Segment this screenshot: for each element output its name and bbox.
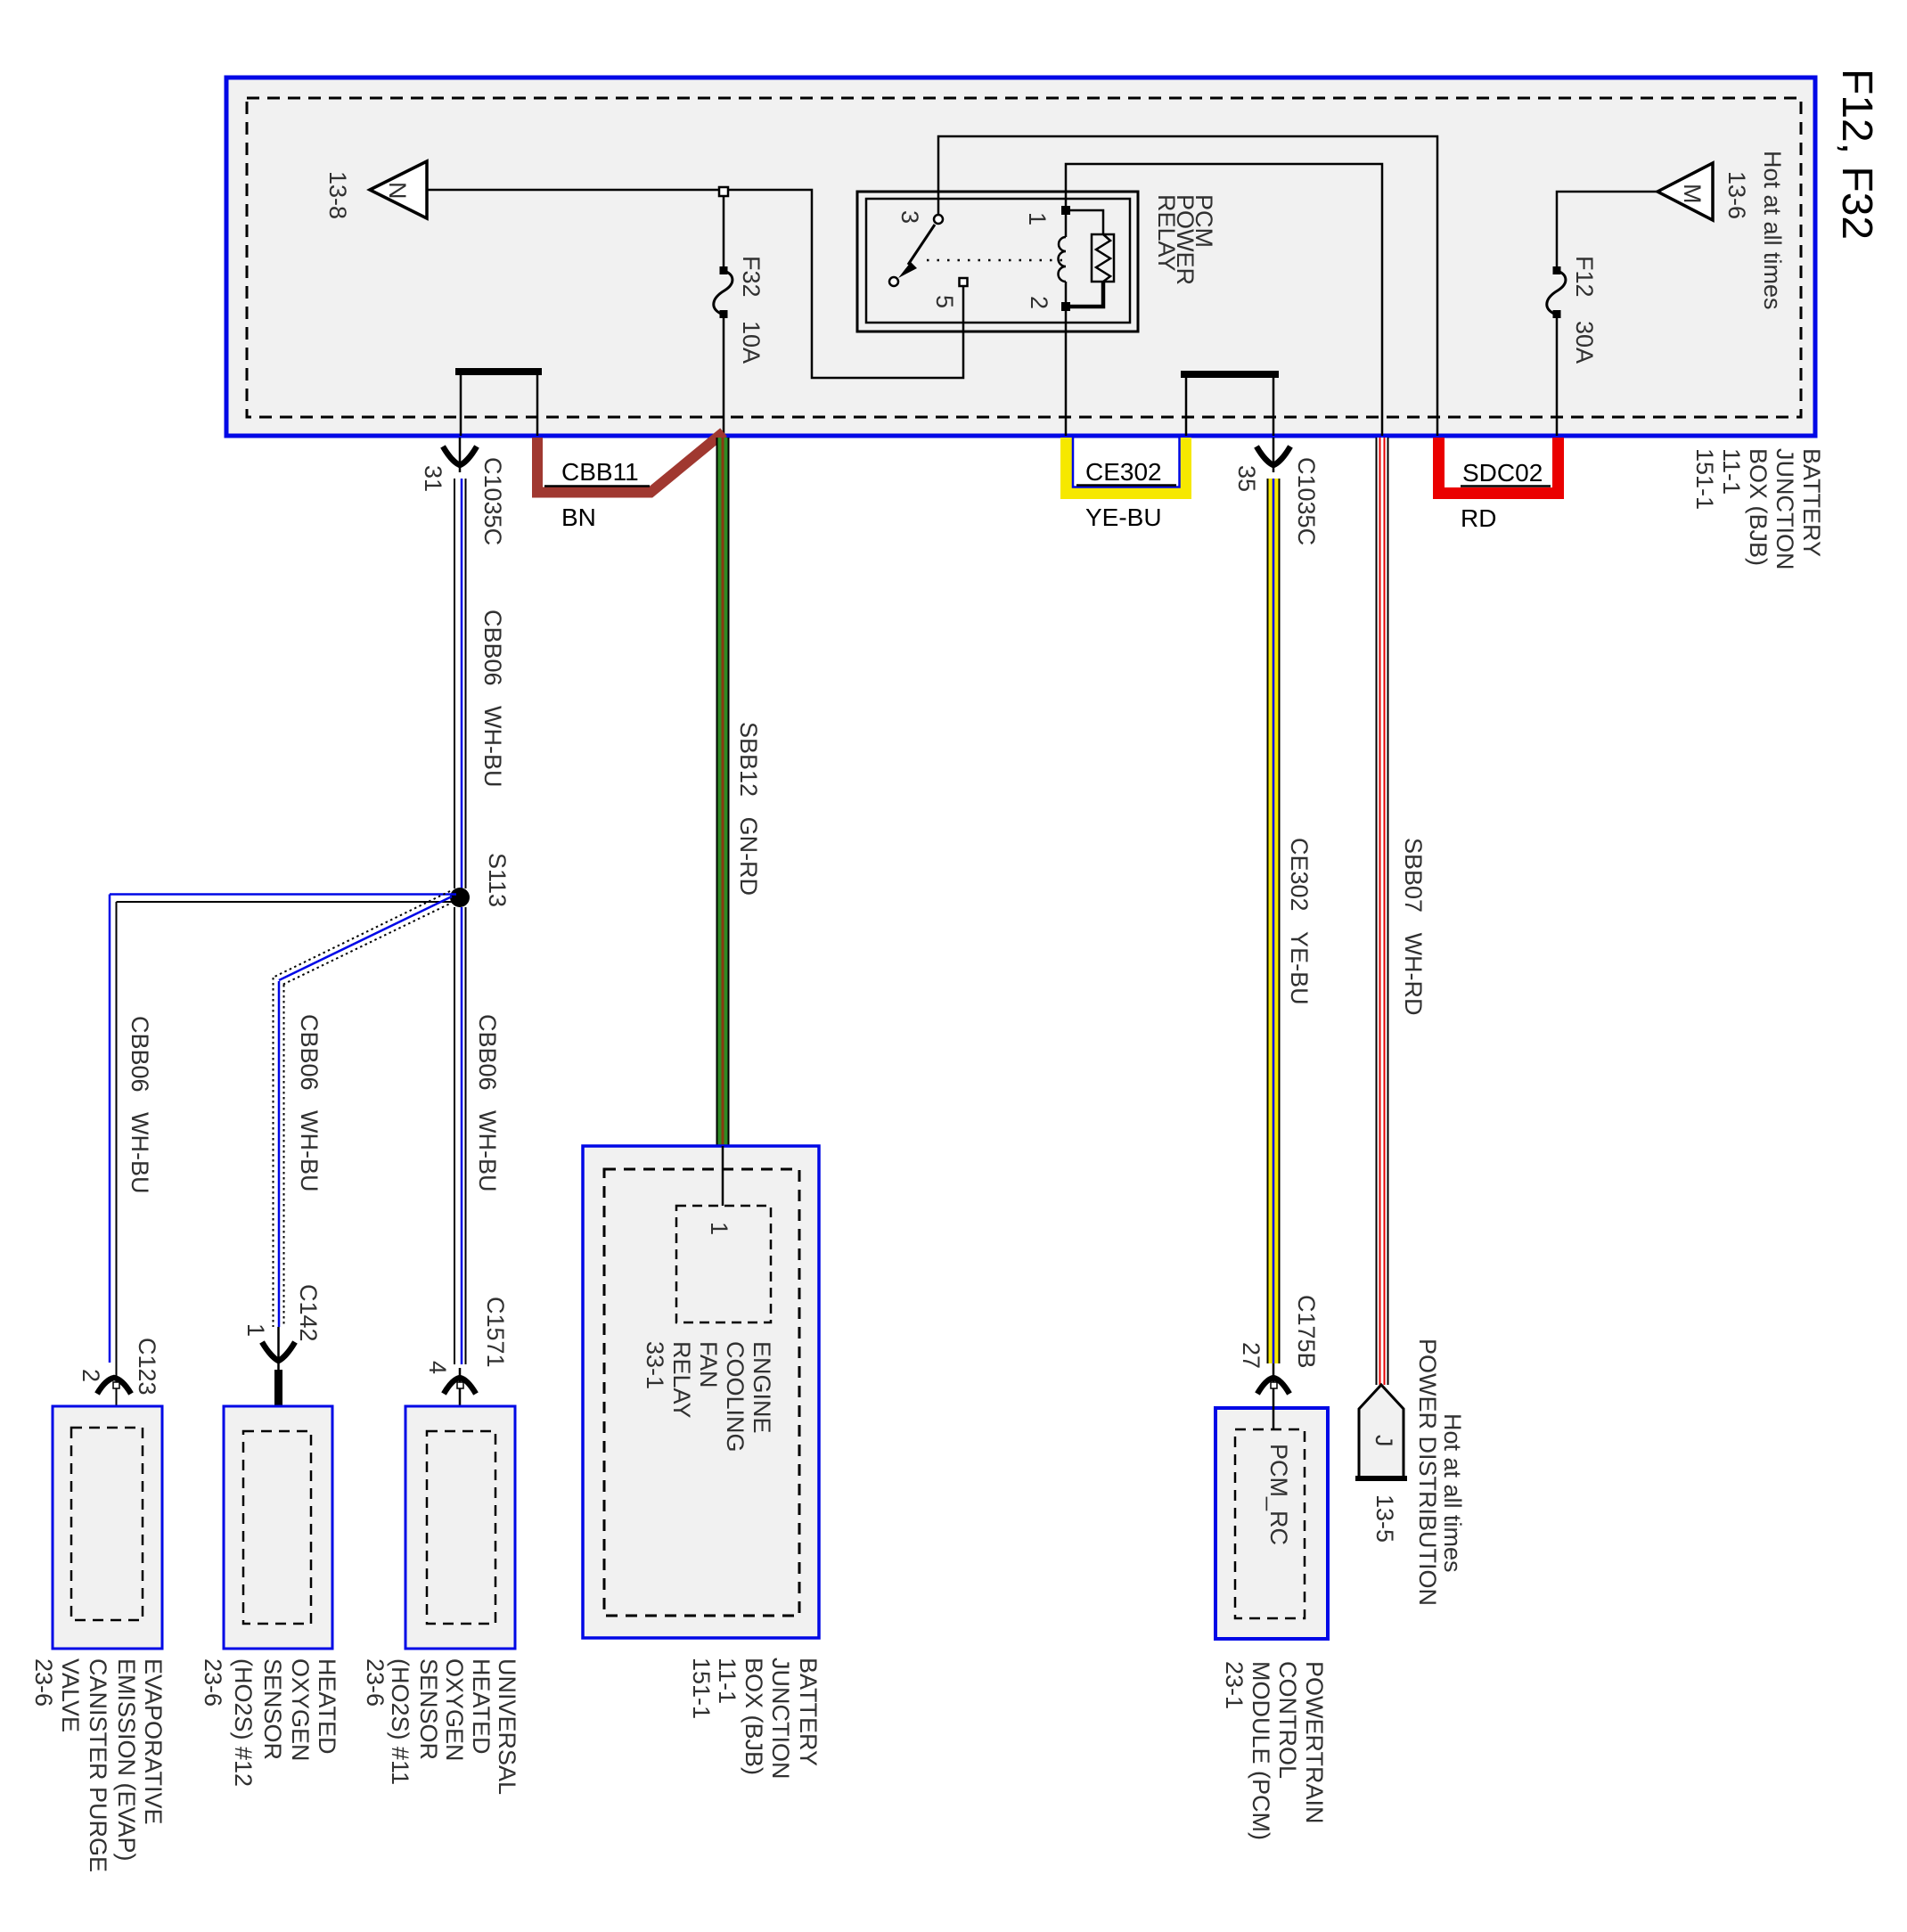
svg-text:C1035C: C1035C [479,457,506,545]
svg-text:BOX (BJB): BOX (BJB) [741,1658,767,1775]
svg-text:SBB07 WH-RD: SBB07 WH-RD [1400,838,1427,1016]
connector arrow 27 into PCM [1257,1363,1289,1429]
svg-text:CBB06 WH-BU: CBB06 WH-BU [474,1014,501,1192]
svg-text:C1571: C1571 [482,1297,509,1368]
BJB reference label (bottom) [688,1658,822,1780]
wire branch from S113 to C123 (EVAP) [110,895,460,1429]
svg-text:35: 35 [1233,465,1260,492]
EVAP labels [30,1658,167,1872]
power symbol triangle N (feed from F32 circuit) [370,161,427,218]
svg-text:CBB11: CBB11 [561,458,639,486]
svg-text:Hot at all times: Hot at all times [1439,1413,1466,1573]
wire CE302 YE-BU to PCM [1268,479,1280,1363]
HO2S #11 labels [362,1658,520,1795]
connector pin bar into HO2S 12 [274,1370,282,1406]
svg-text:C1035C: C1035C [1293,457,1320,545]
HO2S #12 box [224,1406,332,1649]
powertrain control module (PCM) box [1215,1408,1328,1639]
svg-text:2: 2 [78,1369,104,1382]
svg-text:1: 1 [706,1222,733,1235]
svg-text:23-6: 23-6 [362,1658,389,1707]
wire: junction to fuse F32 [723,196,725,268]
wire: relay pin 1 up and over to SBB07 exit [1066,164,1382,436]
svg-text:VALVE: VALVE [57,1658,84,1732]
HO2S #11 box [405,1406,515,1649]
svg-text:151-1: 151-1 [688,1658,715,1719]
svg-text:23-6: 23-6 [30,1658,57,1707]
svg-text:S113: S113 [484,853,511,907]
internal bus bar right (circuit 35 / CE302) [1181,371,1279,436]
connector bracket CBB11 (BN) [537,432,724,531]
svg-text:RD: RD [1461,504,1496,532]
wire: F12 to SDC02 exit [1556,317,1559,436]
svg-text:EVAPORATIVE: EVAPORATIVE [140,1658,167,1825]
wire: N triangle to junction and relay pin 5 branch [427,190,963,378]
connector bracket CE302 (YE-BU) [1067,438,1186,531]
wire: relay pin 3 up and over to SDC02 exit [938,136,1437,436]
svg-text:(HO2S) #12: (HO2S) #12 [230,1658,257,1787]
relay pin 2 terminal [1061,302,1070,311]
wire branch from S113 to C1571 (HO2S 11) [454,907,466,1364]
svg-text:ENGINE: ENGINE [749,1341,775,1434]
svg-text:F12: F12 [1571,256,1598,298]
wire CBB06 WH-BU from C1035C to S113 [454,479,466,888]
connector arrow 1 into C142 [262,1342,295,1361]
wire: F32 to SBB12 exit [723,317,725,436]
connector arrow 35 into C1035C [1256,438,1290,472]
svg-text:3: 3 [896,210,923,224]
svg-text:RELAY: RELAY [1153,194,1180,272]
power distribution labels [1414,1338,1466,1606]
svg-text:30A: 30A [1571,321,1598,364]
engine cooling fan relay box (in BJB) [583,1146,819,1638]
fuse F12 30A [1547,266,1566,318]
svg-text:23-6: 23-6 [200,1658,226,1707]
svg-text:31: 31 [420,465,446,492]
svg-text:BATTERY: BATTERY [795,1658,822,1766]
svg-text:COOLING: COOLING [722,1341,749,1453]
svg-text:SBB12 GN-RD: SBB12 GN-RD [735,722,762,896]
relay pin 3 terminal [934,215,943,224]
BJB reference label (top right) [1691,448,1825,570]
svg-text:POWER DISTRIBUTION: POWER DISTRIBUTION [1414,1338,1441,1606]
PCM power relay U-box outline [857,192,1138,332]
svg-text:BOX (BJB): BOX (BJB) [1745,448,1772,566]
svg-text:PCM_RC: PCM_RC [1265,1444,1292,1545]
relay switch blade [889,225,935,286]
svg-text:13-8: 13-8 [324,171,351,219]
engine cooling fan relay labels [642,1341,775,1453]
HO2S #12 labels [200,1658,340,1787]
svg-text:EMISSION (EVAP): EMISSION (EVAP) [113,1658,140,1862]
svg-text:HEATED: HEATED [468,1658,495,1755]
svg-text:BATTERY: BATTERY [1798,448,1825,557]
svg-text:JUNCTION: JUNCTION [1772,448,1798,570]
svg-text:13-6: 13-6 [1723,171,1750,219]
svg-text:UNIVERSAL: UNIVERSAL [494,1658,520,1795]
svg-text:CBB06 WH-BU: CBB06 WH-BU [127,1016,153,1194]
EVAP canister purge valve box [53,1406,162,1649]
svg-text:OXYGEN: OXYGEN [287,1658,314,1762]
svg-text:33-1: 33-1 [642,1341,668,1389]
svg-text:2: 2 [1026,296,1052,309]
svg-text:N: N [384,182,411,200]
svg-text:27: 27 [1238,1342,1265,1369]
svg-text:J: J [1371,1435,1397,1447]
svg-text:4: 4 [424,1361,451,1374]
svg-text:13-5: 13-5 [1371,1494,1398,1543]
relay coil suppression resistor [1070,210,1114,307]
svg-text:SDC02: SDC02 [1462,459,1543,487]
wire SBB12 GN-RD (F32 output) [717,438,729,1146]
svg-text:C142: C142 [295,1284,322,1342]
svg-text:11-1: 11-1 [714,1658,741,1704]
power symbol triangle M (feed to F12) [1657,163,1713,220]
svg-text:F32: F32 [738,256,765,298]
svg-text:1: 1 [1024,212,1051,225]
svg-text:SENSOR: SENSOR [415,1658,442,1760]
relay labels PCM POWER RELAY [1153,194,1217,285]
wire: M triangle to fuse F12 [1557,192,1657,268]
off-page connector J [1355,1385,1407,1478]
connector arrow 31 into C1035C [443,438,477,472]
svg-text:(HO2S) #11: (HO2S) #11 [387,1658,413,1785]
svg-text:CANISTER PURGE: CANISTER PURGE [85,1658,111,1872]
svg-text:C123: C123 [134,1338,160,1396]
svg-text:FAN: FAN [695,1341,722,1388]
svg-text:CE302: CE302 [1085,458,1162,486]
svg-text:CE302 YE-BU: CE302 YE-BU [1286,838,1313,1005]
svg-text:POWERTRAIN: POWERTRAIN [1301,1661,1328,1824]
svg-text:Hot at all times: Hot at all times [1759,151,1786,310]
BJB inner dashed boundary [247,98,1801,417]
battery junction box (BJB) body [226,78,1815,436]
connector arrow 2 into C123 [97,1378,131,1394]
relay pin 1 terminal [1061,206,1070,215]
svg-text:HEATED: HEATED [314,1658,340,1755]
svg-text:OXYGEN: OXYGEN [441,1658,468,1762]
svg-text:CONTROL: CONTROL [1274,1661,1301,1779]
wire SBB07 WH-RD (relay pin 1 feed) [1377,438,1388,1385]
svg-text:F12, F32: F12, F32 [1833,69,1880,240]
relay coil between pins 1 and 2 [1059,215,1067,303]
svg-text:C175B: C175B [1293,1295,1320,1369]
wire: relay pin 2 down to CE302 exit [1065,311,1068,436]
relay dotted actuation line [927,259,1062,262]
fuse F32 10A [714,266,733,318]
svg-text:SENSOR: SENSOR [259,1658,286,1760]
svg-text:MODULE (PCM): MODULE (PCM) [1248,1661,1274,1840]
svg-text:1: 1 [242,1323,269,1337]
wire branch from S113 to C142 (dotted, HO2S 12) [273,891,454,1370]
svg-text:11-1: 11-1 [1718,448,1745,495]
splice S113 [450,888,470,907]
connector arrow 4 into C1571 [444,1368,476,1428]
svg-text:151-1: 151-1 [1691,448,1718,510]
svg-text:M: M [1679,184,1706,204]
svg-text:YE-BU: YE-BU [1085,503,1162,531]
node: junction square on N wire above F32 [719,187,728,196]
internal bus bar left (circuit 31 / CBB11) [455,368,542,436]
svg-text:10A: 10A [738,321,765,364]
svg-text:5: 5 [931,295,958,308]
connector bracket SDC02 (RD) [1439,438,1559,532]
svg-text:RELAY: RELAY [668,1341,695,1419]
svg-text:23-1: 23-1 [1221,1661,1248,1709]
svg-text:CBB06 WH-BU: CBB06 WH-BU [479,610,506,788]
relay pin 5 terminal [960,278,968,286]
PCM labels [1221,1661,1328,1840]
svg-text:BN: BN [561,503,596,531]
svg-text:JUNCTION: JUNCTION [767,1658,794,1780]
svg-text:CBB06 WH-BU: CBB06 WH-BU [296,1014,323,1192]
